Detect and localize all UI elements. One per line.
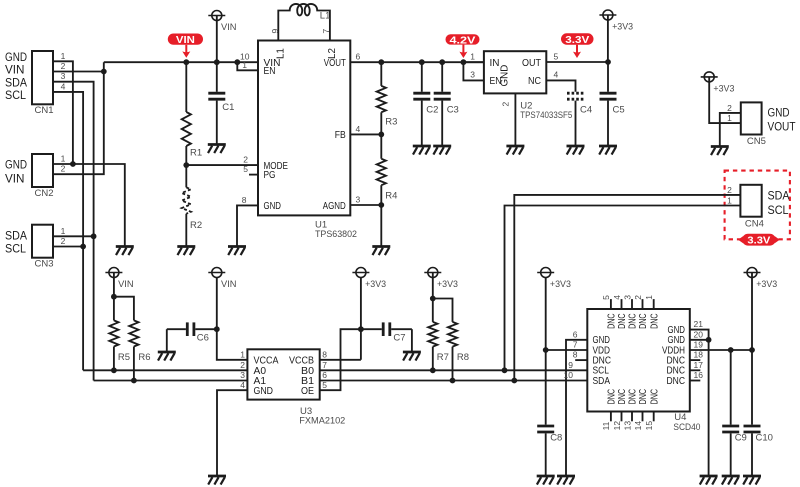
wire U3 GND to ground bbox=[217, 390, 247, 476]
junction AGND R4 bbox=[378, 202, 384, 208]
power symbol VIN bbox=[208, 11, 236, 63]
wire CN2 pin1 GND to ground bbox=[53, 164, 125, 247]
svg-text:VIN: VIN bbox=[221, 279, 237, 289]
net label 3.3V (red) bbox=[561, 33, 594, 58]
svg-text:18: 18 bbox=[694, 350, 704, 360]
svg-text:R1: R1 bbox=[190, 148, 202, 159]
capacitor C3 bbox=[434, 62, 459, 146]
wire AGND bbox=[350, 205, 381, 247]
svg-text:5: 5 bbox=[601, 295, 611, 300]
svg-text:15: 15 bbox=[644, 421, 654, 431]
svg-text:3: 3 bbox=[240, 370, 245, 380]
svg-text:AGND: AGND bbox=[323, 201, 346, 212]
junction R5 top bbox=[111, 294, 117, 300]
junction C6 VIN bbox=[214, 326, 220, 332]
wire C7 to ground bbox=[411, 329, 413, 352]
junction +3V3 C7 OE bbox=[358, 326, 364, 332]
level shifter U3 FXMA2102 bbox=[240, 349, 345, 426]
svg-text:+3V3: +3V3 bbox=[437, 279, 458, 289]
svg-text:14: 14 bbox=[633, 421, 643, 431]
svg-text:2: 2 bbox=[243, 155, 248, 165]
svg-text:DNC: DNC bbox=[638, 313, 649, 329]
svg-text:+3V3: +3V3 bbox=[365, 279, 386, 289]
wire U2 OUT rail bbox=[546, 61, 608, 63]
wire CN3 pin1 SDA stub bbox=[53, 235, 94, 237]
connector CN2 bbox=[5, 154, 66, 199]
svg-text:CN3: CN3 bbox=[35, 258, 54, 269]
svg-text:5: 5 bbox=[243, 164, 248, 174]
svg-text:VOUT: VOUT bbox=[768, 122, 796, 134]
svg-text:3.3V: 3.3V bbox=[747, 235, 770, 247]
junction CN3 pin2 SCL bbox=[80, 244, 86, 250]
power symbol +3V3 (C10) bbox=[744, 268, 778, 351]
wire CN1 pin4 SCL bus bbox=[53, 92, 83, 370]
power symbol +3V3 (C8) bbox=[537, 268, 571, 290]
svg-text:+3V3: +3V3 bbox=[550, 279, 571, 289]
svg-text:4: 4 bbox=[356, 124, 361, 134]
svg-text:17: 17 bbox=[694, 360, 704, 370]
inductor L1 bbox=[278, 4, 330, 41]
wire SDA row right (B1 to U4 SDA) bbox=[320, 380, 588, 382]
resistor R4 bbox=[377, 134, 398, 205]
ground AGND / R4 bbox=[372, 247, 390, 256]
ground C9 bbox=[722, 476, 740, 485]
svg-text:GND: GND bbox=[500, 65, 511, 87]
junction VIN rail EN bbox=[234, 59, 240, 65]
svg-text:3: 3 bbox=[61, 71, 66, 81]
svg-text:FXMA2102: FXMA2102 bbox=[299, 415, 345, 426]
wire U4 DNC pin16 stub bbox=[690, 380, 701, 382]
wire U4 GND pins 21/20 bbox=[690, 330, 709, 476]
junction VOUT U2 IN bbox=[461, 59, 467, 65]
svg-text:OUT: OUT bbox=[522, 58, 541, 69]
capacitor C1 bbox=[208, 62, 234, 144]
power symbol +3V3 (U3) bbox=[352, 268, 386, 290]
net label 3.3V at CN4 (red) bbox=[738, 234, 780, 247]
wire SDA to CN4 pin2 bbox=[514, 195, 740, 381]
svg-text:2: 2 bbox=[61, 61, 66, 71]
svg-text:DNC: DNC bbox=[628, 313, 639, 329]
ground C10 bbox=[743, 476, 761, 485]
svg-text:4: 4 bbox=[240, 380, 245, 390]
svg-text:2: 2 bbox=[501, 102, 511, 107]
svg-text:DNC: DNC bbox=[667, 376, 686, 387]
svg-text:4: 4 bbox=[554, 70, 559, 80]
wire VIN to VCCA bbox=[217, 277, 248, 360]
wire CN1 pin1 GND to CN2 pin1 bbox=[53, 61, 73, 164]
junction R5 SCL bbox=[111, 367, 117, 373]
svg-text:11: 11 bbox=[601, 421, 611, 430]
svg-text:SDA: SDA bbox=[593, 376, 611, 387]
resistor R2 bbox=[182, 165, 202, 246]
svg-text:SCL: SCL bbox=[5, 244, 27, 256]
junction VIN rail C1 bbox=[214, 59, 220, 65]
svg-text:SCL: SCL bbox=[5, 90, 27, 102]
svg-text:OE: OE bbox=[301, 386, 314, 397]
wire +3V3 to CN5 pin1 bbox=[709, 77, 741, 123]
svg-text:C1: C1 bbox=[222, 102, 234, 113]
connector CN1 bbox=[5, 51, 66, 116]
ground U1 GND bbox=[228, 247, 246, 256]
junction VDD C8 bbox=[543, 347, 549, 353]
svg-text:GND: GND bbox=[254, 386, 274, 397]
svg-text:3: 3 bbox=[470, 70, 475, 80]
capacitor C8 bbox=[537, 424, 562, 476]
capacitor C6 bbox=[167, 322, 217, 343]
net label VIN (red) bbox=[168, 34, 203, 58]
svg-text:1: 1 bbox=[61, 226, 66, 236]
svg-text:GND: GND bbox=[264, 201, 282, 212]
junction CN2 pin1 GND bbox=[70, 161, 76, 167]
resistor R5 bbox=[109, 297, 130, 371]
svg-text:1: 1 bbox=[727, 113, 732, 123]
svg-text:2: 2 bbox=[633, 295, 643, 300]
wire U1 GND to ground bbox=[237, 205, 258, 246]
wire CN1 pin2 VIN stub bbox=[53, 71, 104, 73]
ground C3 bbox=[433, 146, 451, 155]
svg-text:3: 3 bbox=[356, 195, 361, 205]
svg-text:+3V3: +3V3 bbox=[713, 84, 734, 94]
op-amp U1 TPS63802 bbox=[240, 41, 360, 241]
svg-text:8: 8 bbox=[322, 349, 327, 359]
svg-text:16: 16 bbox=[694, 370, 704, 380]
svg-text:3: 3 bbox=[622, 295, 632, 300]
svg-text:2: 2 bbox=[240, 360, 245, 370]
wire SDA row left bbox=[94, 380, 248, 382]
svg-text:C6: C6 bbox=[197, 333, 209, 344]
svg-text:4: 4 bbox=[612, 295, 622, 300]
junction R7 SCL bbox=[430, 367, 436, 373]
junction CN1 pin2 bbox=[101, 69, 107, 75]
svg-text:2: 2 bbox=[727, 185, 732, 195]
junction VDDH C10 bbox=[749, 347, 755, 353]
svg-text:C10: C10 bbox=[756, 433, 773, 444]
wire CN1 pin3 SDA bus bbox=[53, 82, 94, 381]
power symbol +3V3 (R7/R8) bbox=[424, 268, 458, 299]
svg-text:C2: C2 bbox=[426, 105, 438, 116]
connector CN3 bbox=[5, 225, 66, 270]
junction VOUT C2 bbox=[419, 59, 425, 65]
svg-text:R4: R4 bbox=[385, 191, 397, 202]
junction pin20 GND bbox=[706, 337, 712, 343]
svg-text:12: 12 bbox=[612, 421, 622, 431]
wire SCL row left bbox=[83, 369, 247, 371]
ground C8 bbox=[537, 476, 555, 485]
wire VDD bbox=[546, 349, 588, 351]
ground R2 bbox=[177, 247, 195, 256]
svg-text:L1: L1 bbox=[320, 11, 331, 22]
svg-text:19: 19 bbox=[694, 340, 704, 350]
svg-text:VIN: VIN bbox=[5, 174, 25, 186]
power symbol VIN (U3) bbox=[208, 268, 236, 290]
svg-text:DNC: DNC bbox=[638, 389, 649, 405]
svg-text:CN2: CN2 bbox=[35, 188, 54, 199]
svg-text:VIN: VIN bbox=[221, 22, 237, 32]
sensor U4 SCD40 bbox=[564, 295, 704, 433]
junction SCL drop bbox=[502, 367, 508, 373]
svg-text:SCD40: SCD40 bbox=[673, 422, 700, 433]
svg-text:7: 7 bbox=[322, 360, 327, 370]
wire U2 IN stub bbox=[463, 61, 484, 63]
svg-text:DNC: DNC bbox=[607, 313, 618, 329]
junction R8 SDA bbox=[450, 378, 456, 384]
junction R7 top bbox=[430, 296, 436, 302]
wire FB bbox=[350, 133, 381, 135]
svg-text:3.3V: 3.3V bbox=[565, 34, 589, 46]
svg-text:R5: R5 bbox=[118, 352, 130, 363]
svg-text:SDA: SDA bbox=[768, 191, 790, 203]
svg-text:GND: GND bbox=[5, 160, 27, 172]
ground U4 pins 20/21 bbox=[700, 476, 718, 485]
svg-text:VIN: VIN bbox=[118, 279, 134, 289]
power symbol VIN (R5/R6) bbox=[105, 268, 133, 297]
ground U3 bbox=[208, 476, 226, 485]
capacitor C2 bbox=[413, 62, 438, 146]
wire U4 GND pin6 to ground bbox=[566, 340, 587, 476]
junction SDA drop bbox=[511, 378, 517, 384]
junction R1 MODE bbox=[183, 162, 189, 168]
svg-text:+3V3: +3V3 bbox=[612, 22, 633, 32]
svg-text:L2: L2 bbox=[327, 48, 338, 59]
svg-text:1: 1 bbox=[61, 154, 66, 164]
svg-text:TPS74033SF5: TPS74033SF5 bbox=[520, 110, 572, 121]
wire U4 DNC pin18 stub bbox=[690, 359, 701, 361]
svg-text:2: 2 bbox=[61, 236, 66, 246]
resistor R7 bbox=[428, 299, 449, 371]
svg-text:6: 6 bbox=[356, 52, 361, 62]
svg-text:8: 8 bbox=[242, 195, 247, 205]
svg-text:2: 2 bbox=[61, 164, 66, 174]
wire +3V3 to VDD and C8 bbox=[545, 277, 547, 424]
svg-text:1: 1 bbox=[242, 60, 247, 70]
svg-text:PG: PG bbox=[264, 170, 276, 181]
svg-text:1: 1 bbox=[240, 349, 245, 359]
net label 4.2V (red) bbox=[446, 34, 480, 58]
wire NC to C4 bbox=[546, 80, 575, 91]
wire VDDH rail bbox=[690, 349, 752, 351]
svg-text:C7: C7 bbox=[393, 333, 405, 344]
svg-text:NC: NC bbox=[528, 76, 541, 87]
wire U2 EN tie bbox=[463, 62, 484, 80]
junction OUT C5 bbox=[605, 59, 611, 65]
svg-text:1: 1 bbox=[727, 196, 732, 206]
ground U2 bbox=[506, 146, 524, 155]
svg-text:VCCB: VCCB bbox=[289, 355, 314, 366]
pin labels 9 and 7 of U1 bbox=[270, 29, 331, 34]
svg-text:R3: R3 bbox=[385, 117, 397, 128]
wire R5/R6 tie bbox=[114, 297, 134, 302]
svg-text:7: 7 bbox=[573, 340, 578, 350]
svg-text:IN: IN bbox=[490, 58, 500, 69]
capacitor C9 bbox=[722, 350, 747, 476]
svg-text:C5: C5 bbox=[613, 105, 625, 116]
svg-text:DNC: DNC bbox=[649, 313, 660, 329]
resistor R8 bbox=[448, 303, 469, 381]
svg-text:10: 10 bbox=[564, 370, 574, 380]
wire OE tie bbox=[320, 329, 361, 390]
wire SCL row right (B0 to U4 SCL) bbox=[320, 369, 588, 371]
resistor R3 bbox=[377, 62, 398, 134]
pin label 2 of U2 bbox=[501, 102, 511, 107]
connector CN4 bbox=[727, 185, 790, 230]
svg-text:1: 1 bbox=[644, 295, 654, 300]
capacitor C10 bbox=[744, 350, 773, 476]
junction VOUT R3 bbox=[378, 59, 384, 65]
junction VIN rail R1 bbox=[183, 59, 189, 65]
svg-text:5: 5 bbox=[554, 51, 559, 61]
capacitor C7 bbox=[361, 322, 412, 343]
svg-text:6: 6 bbox=[573, 329, 578, 339]
svg-text:R7: R7 bbox=[437, 352, 449, 363]
ground C6 bbox=[158, 352, 176, 361]
ground C7 bbox=[403, 352, 421, 361]
svg-text:1: 1 bbox=[470, 51, 475, 61]
svg-text:SCL: SCL bbox=[768, 205, 790, 217]
svg-text:4.2V: 4.2V bbox=[450, 34, 476, 46]
ground CN2 bbox=[116, 247, 134, 256]
svg-text:R2: R2 bbox=[190, 220, 202, 231]
wire R7/R8 tie bbox=[433, 299, 453, 304]
wire U4 pin20 stub bbox=[690, 339, 709, 341]
svg-text:L1: L1 bbox=[276, 48, 287, 59]
wire C6 to ground bbox=[166, 329, 168, 352]
wire PG stub bbox=[249, 174, 258, 176]
ground C4 bbox=[567, 146, 585, 155]
svg-text:C9: C9 bbox=[735, 433, 747, 444]
junction CN3 pin1 SDA bbox=[91, 233, 97, 239]
wire VIN bus vertical to CN2 pin2 bbox=[53, 62, 104, 174]
svg-text:4: 4 bbox=[61, 81, 66, 91]
svg-text:8: 8 bbox=[573, 350, 578, 360]
wire CN3 pin2 SCL stub bbox=[53, 246, 83, 248]
ground C5 bbox=[599, 146, 617, 155]
power symbol +3V3 (C5) bbox=[599, 10, 633, 62]
svg-text:9: 9 bbox=[568, 360, 573, 370]
svg-text:DNC: DNC bbox=[628, 389, 639, 405]
ground C1 bbox=[208, 145, 226, 154]
svg-text:CN5: CN5 bbox=[747, 136, 766, 147]
resistor R1 bbox=[182, 62, 202, 165]
junction VDDH C9 bbox=[728, 347, 734, 353]
svg-text:C3: C3 bbox=[447, 105, 459, 116]
wire VIN rail to U1 bbox=[104, 61, 258, 63]
ground U4 GND bbox=[557, 476, 575, 485]
svg-text:R8: R8 bbox=[457, 352, 469, 363]
wire U4 DNC pin17 stub bbox=[690, 369, 701, 371]
svg-text:CN4: CN4 bbox=[745, 218, 764, 229]
wire MODE to R1 bbox=[186, 164, 258, 166]
svg-text:EN: EN bbox=[264, 66, 276, 77]
svg-text:VIN: VIN bbox=[176, 34, 195, 46]
svg-text:DNC: DNC bbox=[617, 389, 628, 405]
svg-text:2: 2 bbox=[727, 103, 732, 113]
wire VCCB stub bbox=[320, 359, 361, 361]
capacitor C5 bbox=[600, 62, 625, 146]
svg-text:GND: GND bbox=[5, 52, 27, 64]
svg-text:TPS63802: TPS63802 bbox=[315, 229, 357, 240]
svg-text:20: 20 bbox=[694, 329, 704, 339]
svg-text:+3V3: +3V3 bbox=[756, 279, 777, 289]
svg-text:SDA: SDA bbox=[5, 77, 27, 89]
svg-text:13: 13 bbox=[622, 421, 632, 431]
svg-text:CN1: CN1 bbox=[35, 105, 54, 116]
junction R6 SDA bbox=[131, 378, 137, 384]
wire U2 GND to ground bbox=[514, 93, 516, 146]
capacitor C4 (DNP) bbox=[567, 92, 592, 146]
svg-text:6: 6 bbox=[322, 370, 327, 380]
resistor R6 bbox=[129, 302, 150, 381]
connector CN5 bbox=[727, 102, 795, 147]
svg-text:GND: GND bbox=[768, 108, 790, 120]
ground CN5 bbox=[711, 147, 729, 156]
junction VOUT C3 bbox=[439, 59, 445, 65]
junction FB bbox=[378, 132, 384, 138]
wire SCL to CN4 pin1 bbox=[505, 206, 741, 371]
svg-text:VCCA: VCCA bbox=[254, 355, 279, 366]
svg-text:VIN: VIN bbox=[5, 65, 25, 77]
dashed red region around CN4 bbox=[725, 171, 790, 240]
svg-text:DNC: DNC bbox=[607, 389, 618, 405]
svg-text:C8: C8 bbox=[550, 433, 562, 444]
svg-text:FB: FB bbox=[335, 130, 346, 141]
svg-text:SDA: SDA bbox=[5, 231, 27, 243]
svg-text:21: 21 bbox=[694, 319, 704, 329]
wire U4 DNC pin8 stub bbox=[575, 359, 587, 361]
wire VOUT rail bbox=[350, 61, 484, 63]
wire CN5 pin2 GND bbox=[720, 113, 741, 147]
svg-text:DNC: DNC bbox=[617, 313, 628, 329]
ground C2 bbox=[413, 146, 431, 155]
svg-text:1: 1 bbox=[61, 51, 66, 61]
wire EN tie to VIN bbox=[237, 62, 258, 70]
svg-text:DNC: DNC bbox=[649, 389, 660, 405]
regulator U2 TPS74033SF5 bbox=[470, 51, 572, 121]
svg-text:R6: R6 bbox=[138, 352, 150, 363]
svg-text:C4: C4 bbox=[580, 105, 592, 116]
wire +3V3 to VCCB bbox=[360, 277, 362, 360]
power symbol +3V3 (CN5) bbox=[701, 72, 735, 94]
